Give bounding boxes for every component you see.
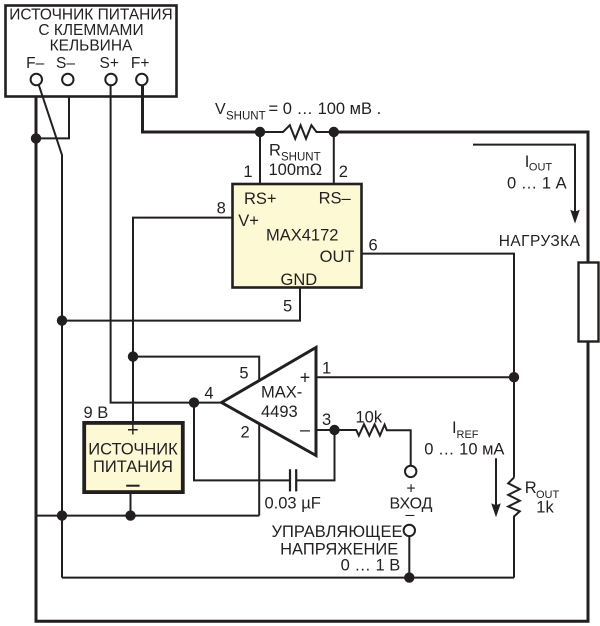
svg-text:С КЛЕММАМИ: С КЛЕММАМИ — [38, 22, 143, 39]
svg-text:R: R — [525, 479, 537, 497]
svg-text:3: 3 — [322, 411, 331, 429]
svg-text:0 … 1 А: 0 … 1 А — [507, 174, 567, 192]
svg-text:–: – — [300, 419, 310, 439]
svg-text:MAX4172: MAX4172 — [266, 226, 338, 244]
svg-text:0 … 10 мА: 0 … 10 мА — [424, 440, 504, 458]
svg-text:R: R — [269, 141, 281, 159]
svg-text:F–: F– — [26, 55, 44, 72]
svg-text:5: 5 — [283, 297, 292, 315]
svg-text:OUT: OUT — [320, 248, 355, 266]
svg-text:6: 6 — [369, 236, 378, 254]
svg-text:S+: S+ — [100, 55, 119, 72]
svg-text:V+: V+ — [238, 212, 259, 230]
svg-text:RS–: RS– — [319, 189, 352, 207]
svg-text:OUT: OUT — [529, 162, 553, 174]
svg-text:100mΩ: 100mΩ — [269, 161, 323, 179]
svg-text:V: V — [215, 101, 226, 118]
svg-text:+: + — [127, 420, 139, 442]
svg-text:1k: 1k — [536, 499, 554, 517]
svg-text:1: 1 — [243, 163, 252, 181]
svg-text:8: 8 — [217, 200, 226, 218]
svg-text:MAX-: MAX- — [261, 383, 302, 401]
svg-text:ИСТОЧНИК ПИТАНИЯ: ИСТОЧНИК ПИТАНИЯ — [9, 7, 172, 24]
svg-text:УПРАВЛЯЮЩЕЕ: УПРАВЛЯЮЩЕЕ — [272, 523, 403, 541]
svg-text:REF: REF — [457, 429, 479, 441]
svg-text:–: – — [406, 507, 415, 524]
svg-text:0 … 1 В: 0 … 1 В — [341, 556, 401, 574]
svg-text:RS+: RS+ — [244, 190, 277, 208]
svg-text:= 0 … 100 мВ .: = 0 … 100 мВ . — [269, 100, 382, 118]
svg-text:SHUNT: SHUNT — [226, 110, 266, 122]
svg-text:НАГРУЗКА: НАГРУЗКА — [499, 233, 581, 250]
svg-text:КЕЛЬВИНА: КЕЛЬВИНА — [50, 38, 133, 55]
svg-text:S–: S– — [56, 55, 75, 72]
svg-text:5: 5 — [239, 364, 248, 382]
svg-text:10k: 10k — [356, 409, 383, 427]
svg-text:4: 4 — [204, 384, 213, 402]
svg-text:ИСТОЧНИК: ИСТОЧНИК — [88, 441, 178, 459]
svg-text:4493: 4493 — [261, 403, 298, 421]
svg-text:0.03 µF: 0.03 µF — [265, 494, 321, 512]
svg-text:9 В: 9 В — [84, 404, 109, 422]
svg-text:2: 2 — [241, 424, 250, 442]
svg-text:F+: F+ — [131, 55, 150, 72]
svg-text:1: 1 — [322, 359, 331, 377]
svg-text:ПИТАНИЯ: ПИТАНИЯ — [93, 458, 173, 476]
svg-text:2: 2 — [339, 163, 348, 181]
svg-text:GND: GND — [281, 271, 318, 289]
